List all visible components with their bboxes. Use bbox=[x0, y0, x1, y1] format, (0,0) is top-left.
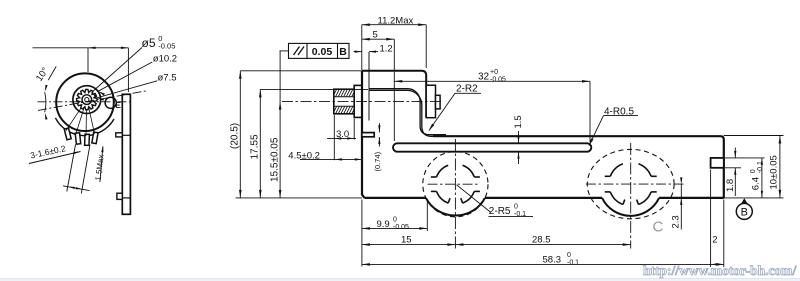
svg-text:B: B bbox=[741, 207, 748, 219]
svg-text:58.3: 58.3 bbox=[543, 255, 562, 266]
svg-text:15.5±0.05: 15.5±0.05 bbox=[270, 137, 281, 182]
svg-text:(20.5): (20.5) bbox=[230, 123, 241, 149]
svg-text:B: B bbox=[339, 46, 347, 58]
svg-text:4.5±0.2: 4.5±0.2 bbox=[288, 151, 320, 162]
svg-text:1.5: 1.5 bbox=[513, 115, 524, 128]
svg-text:-0.05: -0.05 bbox=[490, 76, 506, 83]
svg-text:ø10.2: ø10.2 bbox=[153, 53, 177, 64]
svg-text:0: 0 bbox=[567, 252, 571, 259]
svg-text:0.05: 0.05 bbox=[312, 46, 333, 58]
svg-text:2-R2: 2-R2 bbox=[456, 83, 478, 94]
svg-text:6.4: 6.4 bbox=[750, 177, 761, 190]
svg-text:10±0.05: 10±0.05 bbox=[769, 155, 780, 189]
svg-text:(0.74): (0.74) bbox=[373, 151, 382, 171]
svg-text:C: C bbox=[653, 219, 664, 236]
svg-text:0: 0 bbox=[514, 204, 518, 211]
svg-text:-0.1: -0.1 bbox=[757, 161, 764, 173]
svg-text:-0.1: -0.1 bbox=[567, 259, 579, 266]
svg-text:15: 15 bbox=[401, 235, 412, 246]
svg-text:28.5: 28.5 bbox=[532, 235, 551, 246]
svg-text:1.2: 1.2 bbox=[380, 44, 393, 55]
svg-text:+0: +0 bbox=[490, 69, 498, 76]
svg-text:-0.05: -0.05 bbox=[393, 224, 409, 231]
svg-text:-0.05: -0.05 bbox=[158, 42, 175, 51]
svg-text:1.8: 1.8 bbox=[725, 179, 736, 192]
svg-text:32: 32 bbox=[478, 71, 490, 82]
svg-text:17.55: 17.55 bbox=[250, 134, 261, 159]
svg-text:2: 2 bbox=[712, 235, 717, 246]
svg-text:http://www.motor-bh.com/: http://www.motor-bh.com/ bbox=[643, 263, 796, 278]
svg-text:2-R5: 2-R5 bbox=[489, 206, 511, 217]
svg-text:0: 0 bbox=[393, 217, 397, 224]
svg-text:ø7.5: ø7.5 bbox=[158, 72, 177, 83]
svg-text:0: 0 bbox=[750, 169, 757, 173]
svg-text:2.3: 2.3 bbox=[671, 215, 682, 228]
svg-text:ø5: ø5 bbox=[142, 36, 156, 50]
